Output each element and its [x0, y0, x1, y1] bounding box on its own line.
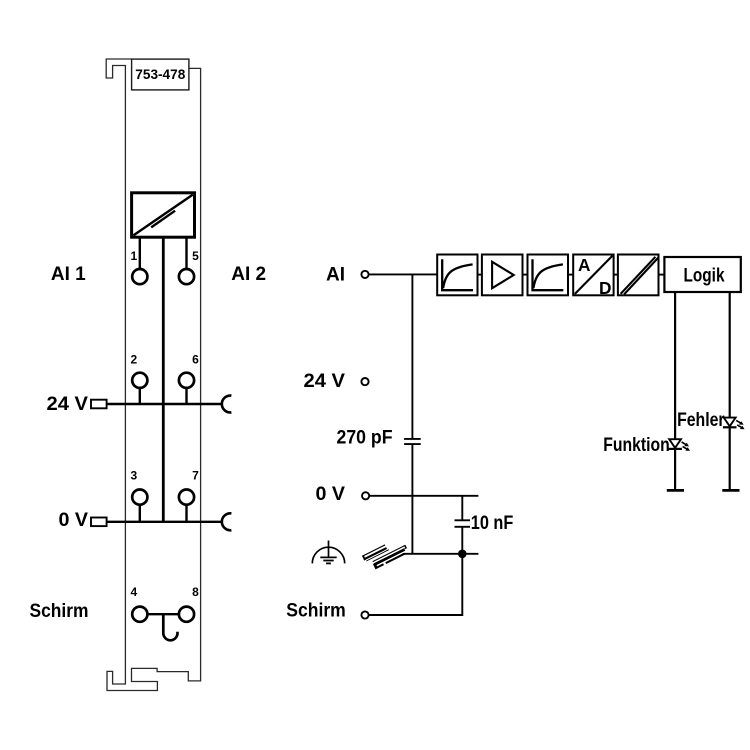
wire 24V rail: [107, 403, 222, 405]
wire pin7 stub: [185, 505, 187, 522]
svg-text:Logik: Logik: [684, 265, 725, 286]
wire 10nF to ground rail: [461, 527, 463, 554]
pin 2: [132, 373, 147, 388]
svg-text:1: 1: [130, 249, 137, 263]
0V pass-through socket: [222, 513, 232, 530]
wire pin5 to transformer: [185, 237, 187, 269]
node 0V terminal: [362, 492, 369, 499]
wire 0V to 10nF: [461, 496, 463, 521]
wire 0V rail (schematic): [369, 495, 478, 497]
svg-text:6: 6: [192, 352, 199, 366]
wire pin3 stub: [139, 505, 141, 522]
svg-text:270 pF: 270 pF: [337, 428, 393, 449]
pin 6: [179, 373, 194, 388]
pin 1: [132, 269, 147, 284]
shield hook: [163, 614, 177, 640]
pin 5: [179, 269, 194, 284]
wire AI to filter: [369, 273, 438, 275]
24V pass-through socket: [222, 396, 232, 413]
svg-text:753-478: 753-478: [135, 67, 186, 82]
ground bar Fehler: [722, 489, 739, 492]
svg-text:7: 7: [192, 468, 199, 482]
svg-text:8: 8: [192, 585, 199, 599]
wire 270pF to ground rail: [411, 444, 413, 554]
node Schirm terminal: [361, 611, 368, 618]
svg-text:10 nF: 10 nF: [471, 513, 514, 534]
svg-text:3: 3: [130, 468, 137, 482]
svg-text:D: D: [599, 278, 611, 298]
svg-text:24 V: 24 V: [47, 394, 89, 415]
filter block F1: [437, 255, 477, 296]
wire AI branch down: [411, 274, 413, 439]
svg-text:Schirm: Schirm: [286, 600, 346, 621]
svg-text:24 V: 24 V: [304, 371, 346, 392]
svg-text:Fehler: Fehler: [677, 410, 725, 431]
LED Funktion: [668, 439, 690, 451]
wire F1-A1: [478, 274, 482, 276]
wire 0V rail: [107, 521, 222, 523]
svg-text:AI 2: AI 2: [231, 264, 266, 285]
earth symbol: [312, 541, 344, 564]
svg-text:0 V: 0 V: [316, 484, 346, 505]
wire pin4 to pin8: [147, 613, 179, 615]
wire U1-ISO: [614, 274, 618, 276]
pin 4: [132, 607, 147, 622]
wire pin6 stub: [185, 388, 187, 404]
isolation block ISO: [618, 255, 659, 296]
svg-text:4: 4: [130, 585, 137, 599]
wire A1-F2: [523, 274, 528, 276]
A/D converter U1: [573, 255, 613, 299]
pin 7: [179, 490, 194, 505]
wire ISO-Logik: [659, 274, 665, 276]
wire Logik to Fehler LED: [729, 292, 731, 489]
logic block Logik: [664, 257, 740, 292]
svg-text:Funktion: Funktion: [603, 435, 670, 456]
wire pin2 stub: [139, 388, 141, 404]
wire pin1 to transformer: [139, 237, 141, 269]
svg-text:5: 5: [192, 249, 199, 263]
wire ground rail: [401, 553, 478, 555]
wire Logik to Funktion LED: [674, 292, 676, 489]
0V feed terminal: [91, 518, 107, 527]
svg-text:0 V: 0 V: [59, 510, 89, 531]
node 24V terminal: [361, 378, 368, 385]
wire F2-U1: [568, 274, 573, 276]
ground bar Funktion: [667, 489, 684, 492]
transformer T1 (isolation block in module): [132, 193, 195, 237]
module outline: [106, 59, 200, 691]
capacitor 270 pF: [404, 439, 421, 444]
wire Schirm to junction: [369, 554, 463, 615]
LED Fehler: [723, 418, 745, 430]
amplifier block A1: [482, 255, 523, 296]
DIN rail symbol: [362, 544, 407, 569]
label box 753-478: [132, 59, 189, 90]
svg-text:Schirm: Schirm: [30, 601, 89, 622]
pin 3: [132, 490, 147, 505]
junction dot: [458, 550, 467, 559]
24V feed terminal: [91, 400, 107, 409]
pin 8: [179, 607, 194, 622]
svg-text:AI: AI: [326, 264, 345, 285]
capacitor 10 nF: [455, 520, 471, 527]
filter block F2: [528, 255, 569, 296]
svg-text:A: A: [578, 255, 591, 275]
svg-text:2: 2: [130, 352, 137, 366]
wire center tap (transformer to 0V rail): [162, 237, 165, 522]
svg-text:AI 1: AI 1: [51, 264, 86, 285]
node AI terminal: [361, 271, 368, 278]
